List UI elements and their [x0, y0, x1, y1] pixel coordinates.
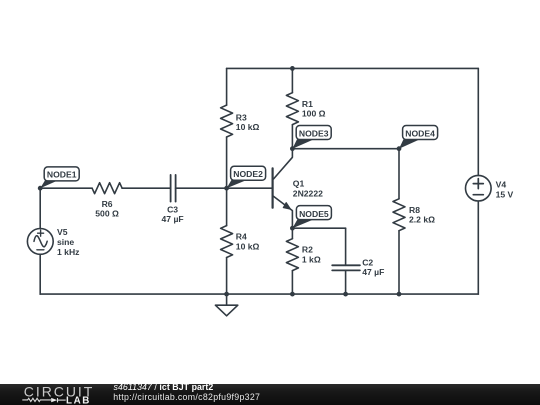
svg-text:V4: V4 [496, 179, 507, 189]
svg-text:15 V: 15 V [496, 189, 514, 199]
svg-text:10 kΩ: 10 kΩ [236, 122, 260, 132]
resistor R3 [221, 105, 233, 137]
logo waveform [22, 398, 65, 402]
svg-text:R3: R3 [236, 112, 247, 122]
resistor R8 [393, 199, 405, 231]
node NODE2 point [224, 186, 229, 191]
svg-text:100 Ω: 100 Ω [302, 109, 326, 119]
node flag NODE4 [399, 126, 438, 149]
wire node5 to R2 [291, 228, 293, 239]
wire C2 upper [345, 228, 347, 265]
svg-text:V5: V5 [57, 227, 68, 237]
svg-text:1 kHz: 1 kHz [57, 247, 79, 257]
resistor R4 [221, 226, 233, 258]
svg-text:R4: R4 [236, 231, 247, 241]
wire node2 to R4 [226, 188, 228, 225]
svg-text:47 µF: 47 µF [362, 267, 384, 277]
wire node3 to node4 [292, 148, 399, 150]
wire top-left drop to R3 [226, 68, 228, 105]
resistor R6 [92, 183, 122, 194]
wire top rail [227, 67, 479, 69]
footer bar [0, 382, 540, 405]
junction R2 bottom [290, 292, 295, 297]
wire right rail upper [477, 68, 479, 175]
svg-text:1 kΩ: 1 kΩ [302, 255, 321, 265]
wire R4 to bottom [226, 258, 228, 295]
wire R6 to C3 [122, 187, 171, 189]
node NODE1 point [38, 186, 43, 191]
svg-text:NODE5: NODE5 [299, 209, 329, 219]
resistor R1 [286, 93, 298, 125]
svg-text:47 µF: 47 µF [162, 214, 184, 224]
svg-text:NODE4: NODE4 [405, 129, 435, 139]
transistor Q1 [273, 149, 293, 229]
svg-text:R2: R2 [302, 245, 313, 255]
node NODE3 point [290, 146, 295, 151]
wire left rail upper [39, 188, 41, 228]
junction R8 bottom [397, 292, 402, 297]
junction C2 bottom [343, 292, 348, 297]
svg-text:NODE1: NODE1 [47, 169, 77, 179]
svg-text:2.2 kΩ: 2.2 kΩ [409, 215, 435, 225]
capacitor C2 [332, 265, 360, 270]
svg-text:Q1: Q1 [293, 179, 305, 189]
wire left rail lower [39, 254, 41, 294]
svg-text:R1: R1 [302, 99, 313, 109]
junction ground [224, 292, 229, 297]
svg-text:2N2222: 2N2222 [293, 189, 323, 199]
svg-text:R6: R6 [102, 199, 113, 209]
wire R2 to bottom [291, 271, 293, 294]
svg-text:10 kΩ: 10 kΩ [236, 241, 260, 251]
svg-text:NODE3: NODE3 [299, 129, 329, 139]
source V4 [466, 175, 492, 201]
svg-text:http://circuitlab.com/c82pfu9f: http://circuitlab.com/c82pfu9f9p327 [113, 392, 260, 402]
node NODE5 point [290, 226, 295, 231]
ground [215, 294, 237, 316]
wire top tee to R1 [291, 68, 293, 92]
wire node4 to R8 [398, 149, 400, 199]
node flag NODE1 [40, 167, 79, 188]
node flag NODE2 [227, 166, 266, 188]
wire node1 to R6 [40, 187, 92, 189]
wire node5 to C2 branch [292, 227, 345, 229]
node flag NODE5 [292, 206, 331, 229]
source V5 [27, 229, 53, 255]
capacitor C3 [171, 175, 176, 202]
wire R8 to bottom [398, 231, 400, 294]
wire bottom rail [40, 293, 478, 295]
node flag NODE3 [292, 126, 331, 149]
logo diode [51, 398, 57, 402]
wire R3 to node2 [226, 137, 228, 188]
junction top tee [290, 66, 295, 71]
wire base node2 to Q1 [227, 187, 273, 189]
svg-text:500 Ω: 500 Ω [95, 208, 119, 218]
wire C3 to node2 [176, 187, 227, 189]
svg-text:NODE2: NODE2 [233, 169, 263, 179]
wire R1 to node3 [291, 125, 293, 149]
svg-text:sine: sine [57, 237, 74, 247]
svg-text:LAB: LAB [66, 395, 91, 405]
resistor R2 [286, 239, 298, 271]
node NODE4 point [397, 146, 402, 151]
wire C2 lower [345, 270, 347, 294]
svg-text:s4611347 / ict BJT part2: s4611347 / ict BJT part2 [114, 382, 214, 392]
wire right rail lower [477, 201, 479, 294]
